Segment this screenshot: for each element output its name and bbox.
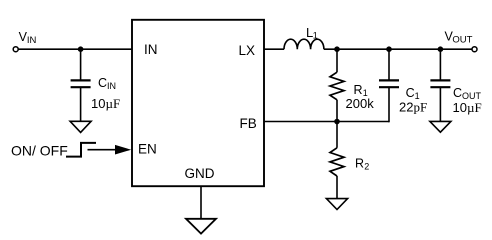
svg-text:EN: EN [138,141,157,156]
svg-text:C: C [98,76,107,90]
svg-text:OUT: OUT [452,35,472,46]
svg-text:IN: IN [144,42,158,57]
svg-text:200k: 200k [346,96,375,111]
svg-text:10µF: 10µF [453,100,482,115]
svg-text:1: 1 [313,31,318,41]
svg-text:2: 2 [364,162,369,172]
svg-text:LX: LX [239,43,256,58]
svg-text:IN: IN [27,35,37,46]
svg-text:C: C [453,86,462,100]
svg-text:FB: FB [240,116,257,131]
svg-text:ON/ OFF: ON/ OFF [11,142,68,158]
svg-text:R: R [355,157,364,171]
svg-text:R: R [354,83,363,97]
svg-text:GND: GND [185,166,215,181]
svg-text:22pF: 22pF [399,100,427,115]
svg-text:IN: IN [107,81,116,91]
svg-text:C: C [406,86,415,100]
svg-text:10µF: 10µF [91,96,120,111]
